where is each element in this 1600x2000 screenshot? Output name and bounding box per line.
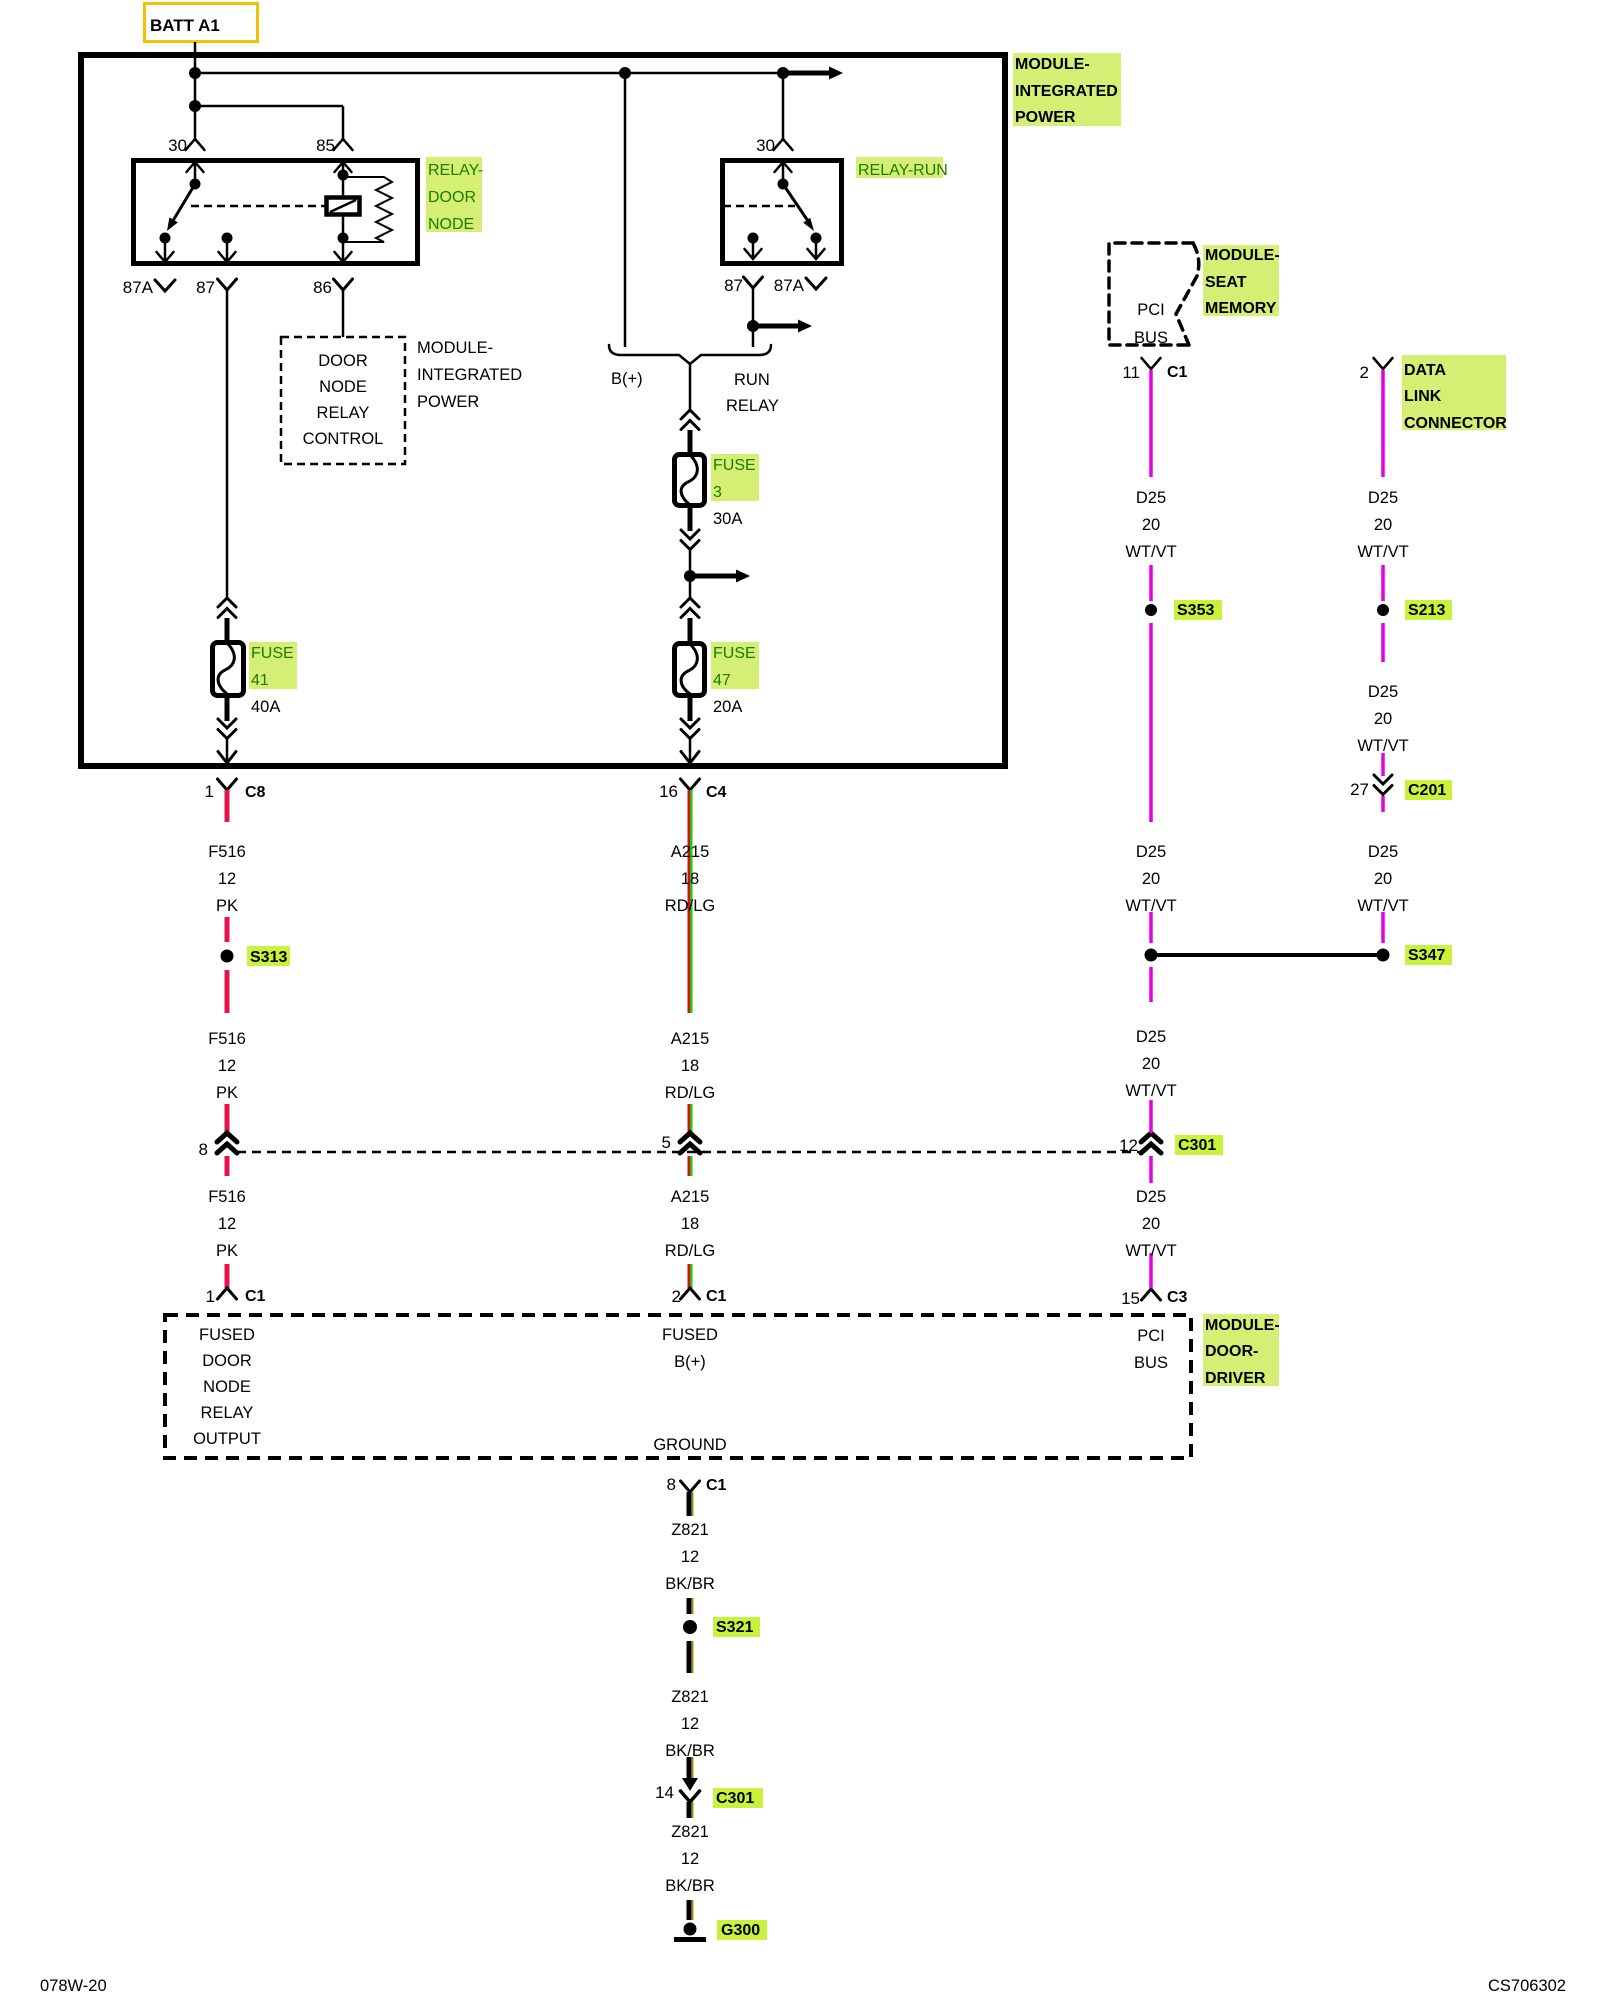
svg-text:27: 27 <box>1350 780 1369 799</box>
svg-text:C1: C1 <box>1167 364 1188 381</box>
svg-text:FUSE: FUSE <box>713 457 756 474</box>
svg-text:DOOR: DOOR <box>202 1352 252 1370</box>
svg-text:30A: 30A <box>713 510 742 528</box>
svg-text:FUSE: FUSE <box>251 645 294 662</box>
svg-text:PK: PK <box>216 1242 238 1260</box>
svg-text:PCI: PCI <box>1137 1327 1165 1345</box>
svg-text:C4: C4 <box>706 784 727 801</box>
svg-text:F516: F516 <box>208 1030 246 1048</box>
svg-text:2: 2 <box>1360 363 1369 382</box>
svg-text:078W-20: 078W-20 <box>40 1977 107 1995</box>
svg-text:RELAY: RELAY <box>726 397 779 415</box>
svg-text:86: 86 <box>313 278 332 297</box>
svg-text:S313: S313 <box>250 949 287 966</box>
svg-text:WT/VT: WT/VT <box>1357 543 1408 561</box>
svg-text:12: 12 <box>681 1850 699 1868</box>
svg-text:16: 16 <box>659 782 678 801</box>
svg-text:30: 30 <box>168 136 187 155</box>
svg-text:A215: A215 <box>671 1188 710 1206</box>
svg-text:RELAY-RUN: RELAY-RUN <box>858 162 948 179</box>
svg-text:Z821: Z821 <box>671 1521 709 1539</box>
svg-text:F516: F516 <box>208 843 246 861</box>
svg-text:Z821: Z821 <box>671 1688 709 1706</box>
svg-text:RD/LG: RD/LG <box>665 1242 715 1260</box>
svg-text:PK: PK <box>216 897 238 915</box>
svg-text:S353: S353 <box>1177 602 1214 619</box>
svg-text:A215: A215 <box>671 843 710 861</box>
svg-text:BK/BR: BK/BR <box>665 1742 715 1760</box>
svg-text:CS706302: CS706302 <box>1488 1977 1566 1995</box>
svg-text:MEMORY: MEMORY <box>1205 300 1277 317</box>
svg-text:C301: C301 <box>1178 1137 1216 1154</box>
svg-text:DOOR: DOOR <box>318 352 368 370</box>
svg-text:NODE: NODE <box>428 216 474 233</box>
svg-text:WT/VT: WT/VT <box>1357 737 1408 755</box>
svg-text:BK/BR: BK/BR <box>665 1575 715 1593</box>
svg-text:8: 8 <box>667 1475 676 1494</box>
svg-text:20: 20 <box>1142 1055 1160 1073</box>
svg-text:PCI: PCI <box>1137 301 1165 319</box>
svg-text:POWER: POWER <box>1015 109 1076 126</box>
svg-text:15: 15 <box>1121 1289 1140 1308</box>
svg-text:8: 8 <box>199 1140 208 1159</box>
svg-text:C201: C201 <box>1408 782 1446 799</box>
svg-text:WT/VT: WT/VT <box>1125 1082 1176 1100</box>
svg-text:WT/VT: WT/VT <box>1125 1242 1176 1260</box>
svg-text:WT/VT: WT/VT <box>1125 543 1176 561</box>
svg-text:1: 1 <box>205 782 214 801</box>
svg-text:20A: 20A <box>713 698 742 716</box>
svg-text:F516: F516 <box>208 1188 246 1206</box>
svg-text:S321: S321 <box>716 1619 753 1636</box>
svg-text:41: 41 <box>251 672 269 689</box>
svg-text:RELAY: RELAY <box>317 404 370 422</box>
svg-text:20: 20 <box>1142 516 1160 534</box>
svg-text:CONTROL: CONTROL <box>303 430 384 448</box>
svg-text:DRIVER: DRIVER <box>1205 1370 1266 1387</box>
svg-text:B(+): B(+) <box>611 370 643 388</box>
svg-text:OUTPUT: OUTPUT <box>193 1430 261 1448</box>
svg-text:INTEGRATED: INTEGRATED <box>417 366 522 384</box>
svg-text:SEAT: SEAT <box>1205 274 1247 291</box>
svg-text:BUS: BUS <box>1134 1354 1168 1372</box>
svg-text:5: 5 <box>662 1133 671 1152</box>
svg-text:D25: D25 <box>1368 843 1398 861</box>
svg-text:DOOR-: DOOR- <box>1205 1343 1258 1360</box>
svg-text:C1: C1 <box>245 1288 266 1305</box>
svg-text:14: 14 <box>655 1783 674 1802</box>
svg-text:11: 11 <box>1122 363 1140 382</box>
svg-text:FUSED: FUSED <box>662 1326 718 1344</box>
svg-text:NODE: NODE <box>319 378 367 396</box>
svg-text:DATA: DATA <box>1404 362 1447 379</box>
svg-text:S213: S213 <box>1408 602 1445 619</box>
svg-text:LINK: LINK <box>1404 388 1442 405</box>
svg-text:20: 20 <box>1142 870 1160 888</box>
svg-text:RELAY-: RELAY- <box>428 162 483 179</box>
svg-text:D25: D25 <box>1136 489 1166 507</box>
svg-text:WT/VT: WT/VT <box>1125 897 1176 915</box>
svg-text:RELAY: RELAY <box>201 1404 254 1422</box>
svg-text:WT/VT: WT/VT <box>1357 897 1408 915</box>
svg-text:12: 12 <box>218 1057 236 1075</box>
svg-text:CONNECTOR: CONNECTOR <box>1404 415 1507 432</box>
svg-text:3: 3 <box>713 484 722 501</box>
svg-text:47: 47 <box>713 672 731 689</box>
svg-text:S347: S347 <box>1408 947 1445 964</box>
svg-text:12: 12 <box>681 1548 699 1566</box>
svg-text:C301: C301 <box>716 1790 754 1807</box>
svg-text:MODULE-: MODULE- <box>1205 247 1280 264</box>
svg-text:87: 87 <box>196 278 215 297</box>
svg-text:RD/LG: RD/LG <box>665 1084 715 1102</box>
svg-text:POWER: POWER <box>417 393 479 411</box>
svg-text:18: 18 <box>681 870 699 888</box>
svg-text:D25: D25 <box>1368 489 1398 507</box>
svg-text:RD/LG: RD/LG <box>665 897 715 915</box>
svg-text:MODULE-: MODULE- <box>417 339 493 357</box>
svg-text:GROUND: GROUND <box>653 1436 726 1454</box>
svg-text:20: 20 <box>1142 1215 1160 1233</box>
svg-text:12: 12 <box>218 1215 236 1233</box>
svg-text:12: 12 <box>681 1715 699 1733</box>
svg-text:G300: G300 <box>721 1922 760 1939</box>
svg-text:FUSE: FUSE <box>713 645 756 662</box>
svg-text:1: 1 <box>206 1287 215 1306</box>
svg-text:40A: 40A <box>251 698 280 716</box>
svg-text:RUN: RUN <box>734 371 770 389</box>
svg-text:30: 30 <box>756 136 775 155</box>
svg-text:B(+): B(+) <box>674 1353 706 1371</box>
svg-text:INTEGRATED: INTEGRATED <box>1015 83 1118 100</box>
svg-text:PK: PK <box>216 1084 238 1102</box>
svg-text:FUSED: FUSED <box>199 1326 255 1344</box>
svg-text:85: 85 <box>316 136 335 155</box>
svg-text:87A: 87A <box>774 276 805 295</box>
svg-text:2: 2 <box>672 1287 681 1306</box>
svg-text:D25: D25 <box>1136 1188 1166 1206</box>
svg-text:D25: D25 <box>1136 1028 1166 1046</box>
svg-text:12: 12 <box>1119 1136 1138 1155</box>
svg-text:D25: D25 <box>1368 683 1398 701</box>
svg-text:20: 20 <box>1374 710 1392 728</box>
svg-text:87A: 87A <box>123 278 154 297</box>
svg-text:MODULE-: MODULE- <box>1015 56 1090 73</box>
svg-text:12: 12 <box>218 870 236 888</box>
svg-text:A215: A215 <box>671 1030 710 1048</box>
svg-text:87: 87 <box>724 276 743 295</box>
svg-text:C1: C1 <box>706 1288 727 1305</box>
svg-text:NODE: NODE <box>203 1378 251 1396</box>
svg-text:20: 20 <box>1374 870 1392 888</box>
svg-text:20: 20 <box>1374 516 1392 534</box>
svg-text:MODULE-: MODULE- <box>1205 1317 1280 1334</box>
svg-text:D25: D25 <box>1136 843 1166 861</box>
svg-text:C8: C8 <box>245 784 266 801</box>
svg-text:Z821: Z821 <box>671 1823 709 1841</box>
svg-text:BATT A1: BATT A1 <box>150 16 220 35</box>
svg-text:18: 18 <box>681 1215 699 1233</box>
svg-text:BUS: BUS <box>1134 329 1168 347</box>
svg-text:C1: C1 <box>706 1477 727 1494</box>
svg-text:18: 18 <box>681 1057 699 1075</box>
svg-text:BK/BR: BK/BR <box>665 1877 715 1895</box>
svg-text:DOOR: DOOR <box>428 189 476 206</box>
svg-text:C3: C3 <box>1167 1289 1188 1306</box>
